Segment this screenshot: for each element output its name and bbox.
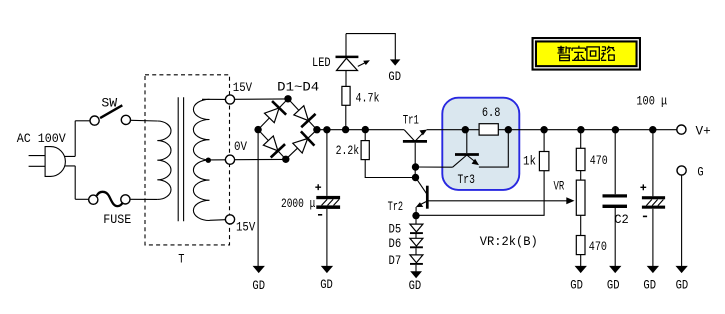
transistor Tr2 [416, 178, 428, 216]
wire to switch SW [75, 120, 90, 122]
fuse FUSE wavy element [97, 192, 123, 206]
switch SW contact circles [90, 116, 99, 125]
label + (2000u) [315, 184, 321, 190]
svg-text:GD: GD [409, 278, 422, 293]
svg-text:GD: GD [252, 278, 265, 293]
LED emission arrow [358, 60, 370, 66]
potentiometer VR body [576, 180, 585, 215]
node bridge top [284, 95, 291, 102]
terminal 0V [225, 155, 234, 164]
wire LED branch vertical [345, 34, 347, 130]
transistor Tr1 [403, 130, 427, 178]
wire secondary bottom to 15V terminal [210, 219, 226, 222]
resistor 6.8 [479, 124, 498, 135]
wire 100u branch [652, 130, 654, 267]
fuse FUSE circles [89, 195, 98, 204]
ground GD arrow (D7) [410, 271, 422, 278]
switch SW lever [100, 105, 122, 118]
wire secondary top to 15V terminal [202, 98, 225, 100]
wire Tr3 collector to base line [416, 166, 453, 168]
ground GD arrow (bridge) [253, 266, 265, 273]
svg-text:470: 470 [589, 239, 607, 254]
node Tr1 base / 2.2k junction [412, 174, 419, 181]
transformer secondary winding [193, 99, 209, 220]
svg-text:D6: D6 [389, 236, 402, 251]
transformer primary winding [157, 121, 171, 199]
wire 15V to bridge top node [235, 98, 288, 100]
node bridge right [313, 126, 320, 133]
ground GD arrow (2000u) [321, 266, 333, 273]
svg-text:GD: GD [607, 278, 620, 293]
resistor 2.2k [361, 141, 369, 160]
svg-text:G: G [697, 164, 703, 179]
resistor 4.7k [342, 86, 350, 105]
capacitor C2 plates [603, 194, 628, 208]
terminal 15V top [225, 95, 234, 104]
node 2.2k junction [362, 126, 369, 133]
svg-text:2.2k: 2.2k [336, 143, 360, 158]
wire G terminal to ground [681, 175, 683, 266]
diode D6 [410, 234, 423, 247]
wire 2000u cap branch lower to ground [326, 209, 328, 267]
wire bridge left node to ground [257, 130, 259, 267]
terminal V+ [677, 125, 686, 134]
VR wiper arrowhead [566, 197, 574, 204]
label - (100u) [643, 215, 647, 217]
wire plug stubs and vertical branch [65, 121, 76, 200]
ground GD arrow (470 chain) [575, 266, 587, 273]
svg-text:Tr3: Tr3 [458, 172, 475, 187]
svg-text:C2: C2 [614, 212, 629, 227]
wire 2000u cap branch upper [326, 130, 328, 196]
node smoothing cap junction [323, 126, 330, 133]
ground GD arrow (100u) [647, 266, 659, 273]
svg-text:2000 μ: 2000 μ [281, 196, 315, 211]
svg-text:FUSE: FUSE [103, 212, 131, 227]
node Tr2 emitter junction [412, 212, 419, 219]
node 100u rail junction [649, 126, 656, 133]
capacitor 100u electrolytic [642, 196, 665, 209]
svg-text:GD: GD [676, 278, 689, 293]
wire 2.2k branch [365, 130, 415, 178]
svg-text:SW: SW [101, 95, 117, 110]
svg-text:T: T [178, 251, 184, 266]
capacitor 2000u electrolytic [316, 196, 340, 209]
ground GD arrow (G) [676, 266, 688, 273]
diode D7 [410, 248, 423, 264]
wire LED top to GD [346, 34, 395, 60]
wire FUSE to transformer primary bottom [130, 198, 157, 200]
diode D1 bridge left-top edge [251, 92, 295, 137]
svg-text:Tr1: Tr1 [403, 113, 419, 128]
LED triangle [337, 58, 358, 70]
node 1k rail junction [540, 126, 547, 133]
label + (100u) [640, 184, 646, 190]
node C2 rail junction [612, 126, 619, 133]
LED cathode bar [336, 56, 359, 59]
resistor 1k [539, 152, 549, 171]
wire main V+ rail right part [427, 129, 677, 131]
svg-text:0V: 0V [234, 139, 247, 154]
node LED branch junction [342, 126, 349, 133]
transistor Tr3 [453, 130, 509, 168]
svg-text:100 μ: 100 μ [636, 94, 667, 109]
svg-text:15V: 15V [236, 220, 255, 235]
title box (yellow, double border) [532, 37, 642, 71]
diode D3 bridge left-bottom edge [251, 123, 293, 166]
svg-text:V+: V+ [696, 124, 711, 139]
diode D5 [410, 216, 423, 234]
svg-text:GD: GD [643, 278, 656, 293]
svg-text:15V: 15V [233, 80, 252, 95]
node 6.8 right rail junction [505, 126, 512, 133]
svg-text:Tr2: Tr2 [388, 199, 404, 214]
svg-text:1k: 1k [523, 153, 536, 168]
svg-text:D7: D7 [389, 253, 402, 268]
wire 0V to bridge bottom node [235, 158, 286, 160]
wire 470 chain [580, 130, 582, 267]
transformer T dashed enclosure [145, 75, 230, 245]
highlight box (blue rounded) [442, 98, 519, 190]
resistor 470 upper [576, 148, 585, 170]
svg-text:470: 470 [590, 153, 608, 168]
wire to FUSE [75, 198, 88, 200]
svg-text:VR:2k(B): VR:2k(B) [480, 234, 538, 249]
wire main V+ rail left part [317, 129, 404, 131]
node 470 chain rail junction [577, 126, 584, 133]
transformer core [178, 97, 183, 221]
svg-text:6.8: 6.8 [482, 105, 501, 120]
wire secondary center tap to 0V terminal [209, 159, 225, 161]
svg-text:D1~D4: D1~D4 [277, 80, 319, 95]
node Tr1 base / Tr3 collector junction [412, 163, 419, 170]
svg-text:4.7k: 4.7k [356, 91, 380, 106]
resistor 470 lower [576, 236, 585, 255]
wire D7 to ground [415, 265, 417, 272]
svg-text:GD: GD [388, 69, 401, 84]
terminal 15V bottom [225, 215, 234, 224]
diode D2 bridge top-right edge [281, 92, 324, 136]
diode D4 bridge bottom-right edge [279, 123, 324, 167]
ground GD arrow (LED) [390, 59, 401, 65]
label - (2000u) [318, 214, 322, 216]
svg-text:GD: GD [570, 278, 583, 293]
svg-text:VR: VR [554, 179, 565, 194]
svg-text:GD: GD [320, 277, 333, 292]
wire Tr2 emitter to 1k bottom [416, 171, 544, 216]
svg-text:AC 100V: AC 100V [17, 131, 66, 146]
node bridge bottom [282, 156, 289, 163]
ground GD arrow (C2) [609, 266, 621, 273]
title text 暫定回路 (drawn) [558, 46, 615, 61]
node center tap [206, 158, 211, 163]
svg-text:LED: LED [312, 55, 331, 70]
terminal G [677, 166, 686, 175]
svg-text:D5: D5 [389, 222, 402, 237]
wire 1k top to rail [543, 130, 545, 152]
node Tr3 base rail junction [462, 126, 469, 133]
node bridge left [254, 126, 261, 133]
wire SW to transformer primary top [131, 119, 158, 122]
wire C2 branch [614, 130, 616, 267]
AC plug [29, 147, 66, 177]
wire Tr2 collector to VR wiper [428, 200, 567, 202]
